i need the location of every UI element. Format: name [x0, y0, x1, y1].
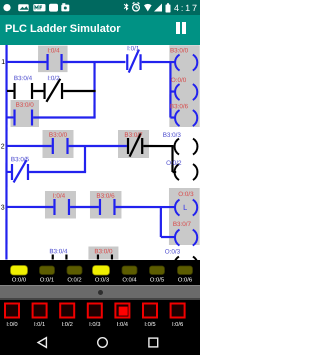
svg-text:B3:0/7: B3:0/7: [124, 132, 143, 139]
svg-text:O:0/4: O:0/4: [122, 276, 137, 283]
svg-text:B3:0/0: B3:0/0: [16, 102, 35, 109]
svg-text:3: 3: [1, 204, 5, 211]
svg-text:I:0/2: I:0/2: [62, 321, 73, 328]
svg-text:O:0/0: O:0/0: [12, 276, 26, 283]
svg-text:I:0/6: I:0/6: [172, 321, 183, 328]
svg-text:B3:0/4: B3:0/4: [14, 75, 33, 82]
svg-text:I:0/5: I:0/5: [144, 321, 155, 328]
svg-text:B3:0/6: B3:0/6: [170, 103, 189, 110]
svg-text:B3:0/7: B3:0/7: [173, 221, 192, 228]
svg-text:O:0/3: O:0/3: [95, 276, 109, 283]
svg-text:I:0/0: I:0/0: [6, 321, 17, 328]
svg-text:2: 2: [1, 143, 5, 150]
svg-text:O:0/5: O:0/5: [150, 276, 164, 283]
svg-text:1: 1: [1, 59, 5, 66]
svg-text:O:0/2: O:0/2: [166, 160, 182, 167]
svg-text:4:17: 4:17: [174, 3, 197, 13]
svg-text:O:0/0: O:0/0: [171, 77, 187, 84]
svg-text:O:0/3: O:0/3: [178, 191, 194, 198]
svg-text:I:0/4: I:0/4: [47, 47, 60, 54]
svg-text:O:0/3: O:0/3: [165, 249, 181, 256]
svg-text:I:0/3: I:0/3: [89, 321, 100, 328]
svg-text:B3:0/0: B3:0/0: [94, 248, 113, 255]
svg-text:B3:0/6: B3:0/6: [96, 193, 115, 200]
svg-text:O:0/6: O:0/6: [178, 276, 192, 283]
svg-text:I:0/4: I:0/4: [117, 321, 129, 328]
svg-text:O:0/1: O:0/1: [40, 276, 54, 283]
svg-text:I:0/1: I:0/1: [127, 45, 140, 52]
svg-text:B3:0/0: B3:0/0: [170, 47, 189, 54]
svg-text:L: L: [183, 203, 187, 212]
svg-text:O:0/2: O:0/2: [67, 276, 81, 283]
svg-text:I:0/4: I:0/4: [53, 193, 66, 200]
svg-text:B3:0/5: B3:0/5: [11, 156, 30, 163]
svg-text:B3:0/4: B3:0/4: [49, 248, 68, 255]
svg-text:I:0/2: I:0/2: [47, 75, 60, 82]
svg-text:B3:0/3: B3:0/3: [163, 132, 182, 139]
svg-text:B3:0/0: B3:0/0: [49, 132, 68, 139]
svg-text:I:0/1: I:0/1: [34, 321, 45, 328]
